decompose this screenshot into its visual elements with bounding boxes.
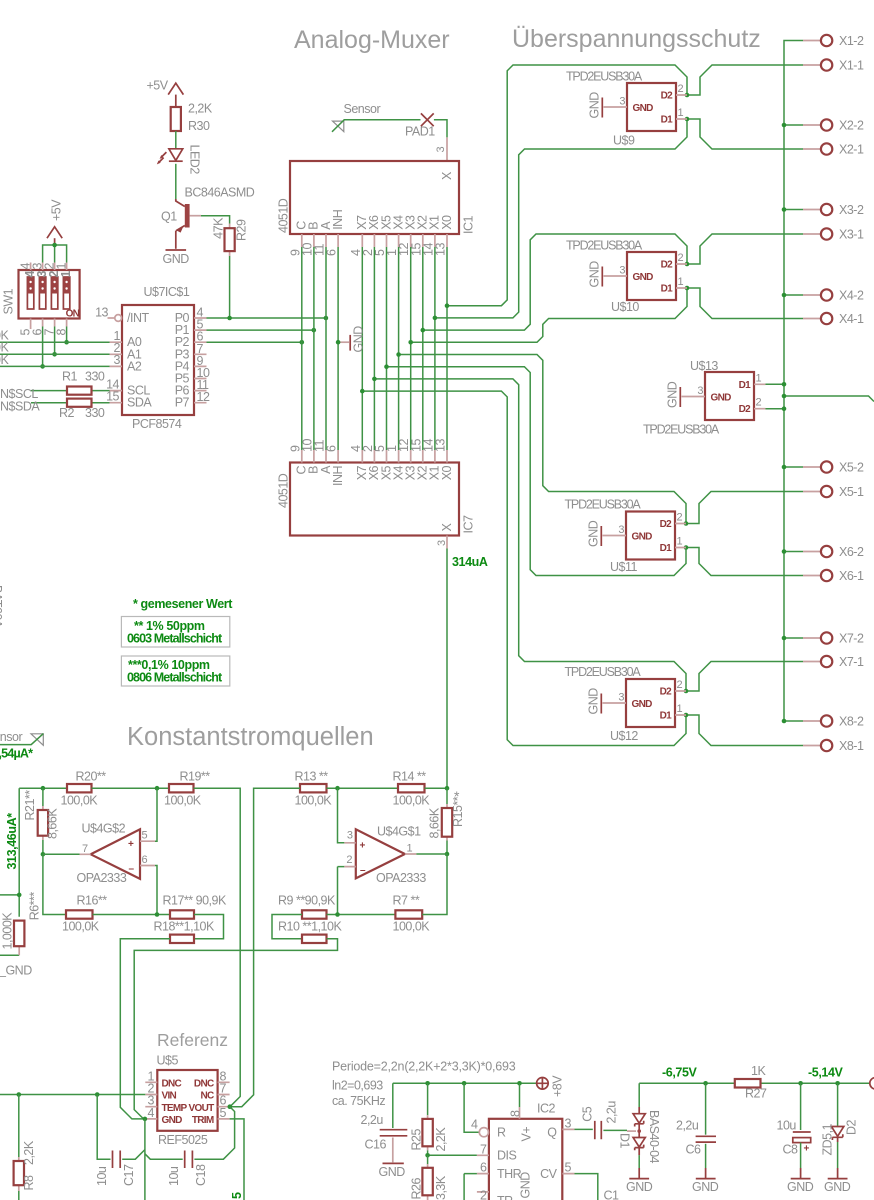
svg-text:0603 Metallschicht: 0603 Metallschicht [127,632,223,646]
svg-text:5: 5 [142,830,148,842]
junction U$11 D1 [684,545,689,550]
wire R17 right to R18 right [194,915,224,939]
svg-text:GND: GND [711,393,732,404]
svg-text:ON: ON [66,309,80,320]
capacitor C8 10u polarized [777,1083,811,1178]
svg-text:R14 **: R14 ** [393,770,427,784]
svg-text:3: 3 [114,353,121,367]
svg-text:INH: INH [331,209,345,230]
svg-text:8: 8 [509,1110,523,1117]
svg-text:R15**: R15** [451,796,465,827]
capacitor C6 2,2u [676,1083,716,1178]
svg-text:100,0K: 100,0K [393,919,431,933]
svg-text:4051D: 4051D [276,473,290,508]
protection IC U$9 TPD2EUSB30A [566,70,687,148]
node Sensor flag (lower) [0,730,43,745]
svg-text:A2: A2 [127,359,142,373]
svg-text:100,0K: 100,0K [62,919,100,933]
svg-text:U$13: U$13 [690,359,718,373]
capacitor C17 10u [95,1095,145,1187]
wire A1 row [0,353,110,355]
svg-text:R16**: R16** [77,894,108,908]
svg-text:REF5025: REF5025 [158,1133,208,1147]
svg-text:3: 3 [347,830,353,842]
junction P0/A-select [324,316,329,321]
resistor R21 8,66K [23,788,60,840]
svg-text:X: X [440,171,454,180]
svg-text:GND: GND [824,1180,851,1194]
svg-text:R29: R29 [235,219,249,241]
svg-text:3: 3 [697,385,703,397]
junction C6 top [703,1081,708,1086]
svg-text:C6: C6 [686,1143,702,1157]
wire mux pin verticals IC1-IC7 [302,247,447,450]
svg-text:X5-2: X5-2 [839,461,864,475]
junction bus mid tap [782,394,787,399]
svg-text:6: 6 [325,445,339,452]
svg-text:X8-2: X8-2 [839,715,864,729]
junction U$9 D2 [685,93,690,98]
wire opamp2 -in to R16/R17 row [155,866,157,915]
resistor R16 100,0K [62,894,107,934]
resistor R8 2,2K [14,1095,36,1200]
junction bus X7-2 [782,636,787,641]
resistor R17 90,9K [163,894,227,919]
junction +5V rail [52,243,57,248]
wire net X1-1 (mux X0 row) [447,65,803,306]
resistor R6 1,000K [1,892,42,956]
junction REF GND [143,1117,148,1122]
svg-text:2: 2 [677,512,683,524]
wire net X3-1 (mux X2 row) [423,234,803,330]
wire P2 net to mux C [207,341,302,343]
protection IC U$11 TPD2EUSB30A [565,498,687,575]
junction mux X7 [360,389,365,394]
svg-text:BAS40-04: BAS40-04 [647,1110,661,1164]
junction bus X2-2 [782,123,787,128]
wire R7 right feedback [422,854,447,915]
svg-text:X7-1: X7-1 [839,655,864,669]
junction bus X5-2 [782,465,787,470]
svg-text:CV: CV [540,1167,558,1181]
junction opamp1 +in column [335,786,340,791]
resistor R25 2,2K [410,1083,448,1151]
svg-text:100,0K: 100,0K [393,793,431,807]
svg-text:10u: 10u [777,1119,797,1133]
svg-text:X0: X0 [440,215,454,230]
junction bus X3-2 [782,207,787,212]
svg-text:R25: R25 [410,1129,424,1151]
svg-text:U$4G$2: U$4G$2 [82,822,126,836]
svg-text:NC: NC [200,1091,214,1102]
svg-text:7: 7 [82,843,88,855]
wire IC7 X output down to R13/R14 node [446,549,448,789]
svg-text:C5: C5 [580,1106,594,1122]
junction P1/B-select [312,328,317,333]
transistor Q1 BC846ASMD [161,186,255,249]
svg-text:ZD5,1: ZD5,1 [821,1123,835,1155]
svg-text:Sensor: Sensor [344,102,381,116]
svg-text:47K: 47K [212,217,226,239]
svg-text:TPD2EUSB30A: TPD2EUSB30A [565,498,642,512]
junction A2 [40,364,45,369]
svg-text:DNC: DNC [194,1079,214,1090]
svg-text:1: 1 [407,842,413,854]
wire R15 to opamp1 output [446,841,448,855]
svg-text:D1: D1 [739,380,752,391]
wire R10 right down to row 950 [134,939,337,1119]
svg-text:* gemesener Wert: * gemesener Wert [133,597,233,611]
svg-text:X4-1: X4-1 [839,312,864,326]
junction C8 top [798,1081,803,1086]
wire Q1 base to R29 [190,215,201,217]
resistor R13 100,0K [295,770,333,808]
svg-text:D1: D1 [660,711,673,722]
svg-text:0K: 0K [0,353,9,367]
svg-text:10u: 10u [95,1166,109,1186]
svg-text:8,66K: 8,66K [427,807,441,838]
svg-text:1,000K: 1,000K [1,912,15,950]
svg-text:8,66K: 8,66K [46,808,60,839]
svg-text:100,0K: 100,0K [295,793,333,807]
svg-text:2,2u: 2,2u [676,1119,699,1133]
ground GND (mux INH) [338,326,366,353]
svg-text:D2: D2 [661,260,674,271]
svg-text:Überspannungsschutz: Überspannungsschutz [512,25,761,53]
svg-text:X8-1: X8-1 [839,739,864,753]
svg-text:GND: GND [379,1165,406,1179]
junction bus X4-2 [782,293,787,298]
svg-text:D2: D2 [661,91,674,102]
svg-text:DNC: DNC [162,1079,182,1090]
svg-text:3: 3 [618,524,624,536]
svg-text:U$10: U$10 [611,300,639,314]
wire pin4 reset [464,1083,479,1132]
svg-text:C18: C18 [194,1164,208,1186]
svg-text:3: 3 [619,96,625,108]
svg-text:VOUT: VOUT [189,1103,215,1114]
junction R25 top [425,1081,430,1086]
wire net X7-1 (mux X6 row) [374,379,803,691]
svg-text:U$5: U$5 [157,1054,179,1068]
svg-text:D2: D2 [660,687,673,698]
svg-text:2,2u: 2,2u [604,1101,618,1124]
resistor R30 [171,102,213,134]
wire SW1 pins 6,7,8 down to address rows [43,327,67,367]
IC U$5 REF5025 [145,1054,229,1148]
svg-text:C17: C17 [122,1164,136,1186]
wire R20 to R19 [92,787,170,789]
svg-text:6: 6 [142,854,148,866]
wire U$13 to bus and output [766,384,874,408]
junction opamp2 output [41,852,46,857]
resistor R20 100,0K [61,770,107,808]
svg-text:U$12: U$12 [610,729,638,743]
diode D1 BAS40-04 [618,1083,662,1178]
svg-text:U$9: U$9 [613,134,635,148]
protection IC U$13 TPD2EUSB30A [643,359,766,437]
svg-text:2: 2 [346,854,352,866]
svg-text:ca. 75KHz: ca. 75KHz [332,1094,385,1108]
svg-text:6: 6 [480,1161,487,1175]
svg-text:TEMP: TEMP [162,1103,188,1114]
svg-text:5: 5 [220,1106,227,1120]
svg-text:R19**: R19** [180,770,211,784]
ground GND (D2) [824,1179,851,1194]
svg-text:D1: D1 [618,1133,632,1149]
svg-text:2: 2 [678,83,684,95]
wire REF GND column [144,1119,146,1200]
junction mux X6 [372,377,377,382]
svg-text:2,2K: 2,2K [22,1140,36,1165]
supply +5V (SW1) [47,199,63,245]
svg-text:GND: GND [633,272,654,283]
wire R9 left to R10 left [272,915,302,939]
junction mux X4 [396,352,401,357]
junction A1 [52,352,57,357]
svg-text:GND: GND [588,92,602,119]
svg-text:SW1: SW1 [1,288,15,314]
svg-text:GND: GND [163,252,190,266]
svg-text:X6-2: X6-2 [839,545,864,559]
wire R13 left down to REF VOUT [230,788,300,1106]
IC IC7 4051D [276,439,475,549]
resistor R26 3,3K [410,1155,448,1200]
svg-text:3: 3 [565,1116,572,1130]
op-amp U$4G$1 OPA2333 [344,824,426,885]
svg-text:R26: R26 [410,1178,424,1200]
junction -in/R7 [335,912,340,917]
wire opamp2 output to feedback row [43,854,80,914]
svg-text:13: 13 [95,306,108,320]
wire net X2-1 (mux X1 row) [435,119,803,318]
svg-text:13: 13 [434,439,448,452]
svg-text:X4-2: X4-2 [839,289,864,303]
svg-text:C8: C8 [783,1143,799,1157]
junction C17 column [95,1092,100,1097]
svg-text:1: 1 [678,107,684,119]
ground GND (Q1 emitter) [163,250,190,266]
protection IC U$10 TPD2EUSB30A [566,239,687,315]
svg-text:1: 1 [756,372,762,384]
junction bus X6-2 [782,549,787,554]
svg-text:C1: C1 [604,1189,620,1200]
svg-text:1: 1 [677,536,683,548]
wire return bus (X*-2 common) [784,41,803,722]
svg-text:7: 7 [480,1142,487,1156]
wire P1 net to mux B [207,329,314,331]
svg-text:10u: 10u [167,1166,181,1186]
svg-text:-6,75V: -6,75V [662,1066,697,1080]
svg-text:Q1: Q1 [161,210,177,224]
svg-text:3: 3 [435,147,447,153]
svg-text:IC7: IC7 [461,515,475,534]
supply +5V (LED branch) [147,79,184,108]
capacitor C18 10u [145,1107,235,1186]
junction pin4 column [462,1081,467,1086]
svg-text:100,0K: 100,0K [164,793,202,807]
resistor R19 100,0K [164,770,210,808]
LED LED2 [157,145,202,175]
svg-text:IC1: IC1 [461,216,475,235]
junction opamp1 output [445,852,450,857]
junction A0 [64,340,69,345]
diode D2 ZD5,1 zener [821,1083,859,1178]
wire +8V rail [393,1082,537,1084]
svg-text:R1: R1 [62,370,78,384]
svg-text:GND: GND [632,532,653,543]
wire C5 to D1 mid [603,1129,627,1131]
wire DIS row [428,1150,477,1155]
svg-text:X2-2: X2-2 [839,119,864,133]
svg-text:R17** 90,9K: R17** 90,9K [163,894,227,908]
svg-text:Periode=2,2n(2,2K+2*3,3K)*0,69: Periode=2,2n(2,2K+2*3,3K)*0,693 [332,1060,516,1074]
svg-text:15: 15 [106,390,119,404]
junction bus X8-2 [782,719,787,724]
svg-text:X3-2: X3-2 [839,203,864,217]
svg-text:+: + [360,840,366,851]
svg-text:X: X [440,523,454,532]
svg-text:3: 3 [619,265,625,277]
svg-text:1: 1 [678,276,684,288]
svg-text:2: 2 [677,679,683,691]
svg-text:+: + [804,1144,810,1155]
svg-text:X1-2: X1-2 [839,34,864,48]
svg-text:GND: GND [587,688,601,715]
svg-text:TPD2EUSB30A: TPD2EUSB30A [643,423,720,437]
svg-text:TPD2EUSB30A: TPD2EUSB30A [566,70,643,84]
wire P0 net to mux A [207,317,326,319]
svg-text:R2: R2 [59,406,75,420]
wire R21 to opamp2 output [42,840,44,854]
svg-text:X1-1: X1-1 [839,59,864,73]
junction mux X2 [421,328,426,333]
resistor R2 330 [59,399,105,420]
wire net X5-1 (mux X4 row) [399,355,803,524]
wire A2 row [0,365,110,367]
junction P0/R29 [227,316,232,321]
svg-text:GND: GND [352,326,366,353]
resistor R9 90,9K [278,894,336,919]
svg-text:C16: C16 [365,1138,387,1152]
wire net Sensor to PAD1 [332,120,447,138]
ground GND (C8) [787,1179,814,1194]
svg-text:+5V: +5V [49,199,63,221]
svg-text:D1: D1 [661,284,674,295]
junction R6 top [17,893,22,898]
op-amp U$4G$2 OPA2333 [77,822,156,886]
svg-text:3: 3 [436,540,448,546]
svg-text:R20**: R20** [76,770,107,784]
svg-text:/INT: /INT [127,311,149,325]
node Sensor flag [333,102,381,131]
svg-text:1: 1 [59,271,73,278]
svg-text:TPD2EUSB30A: TPD2EUSB30A [565,665,642,679]
svg-text:VIN: VIN [162,1091,177,1102]
svg-text:2,2K: 2,2K [434,1127,448,1152]
svg-text:2,2K: 2,2K [188,102,213,116]
junction D2 top [835,1081,840,1086]
svg-text:R8: R8 [22,1175,36,1191]
svg-text:INH: INH [331,466,345,487]
svg-text:+5V: +5V [147,79,169,93]
junction mux X1 [433,316,438,321]
svg-text:Analog-Muxer: Analog-Muxer [294,26,450,54]
wire +5V rail to SW1 pins 1-3 [43,245,67,263]
wire R29 to P0 net [229,256,231,318]
svg-text:IC2: IC2 [537,1102,556,1116]
svg-text:R21**: R21** [23,790,37,821]
capacitor C5 2,2u [580,1101,618,1140]
annotation box 2 [121,656,229,686]
junction pin8 column [517,1081,522,1086]
wire opamp1 +in [338,788,345,843]
svg-text:PCF8574: PCF8574 [132,417,182,431]
junction R14/IC7 column [445,786,450,791]
junction mux X3 [408,340,413,345]
svg-text:4: 4 [148,1106,155,1120]
wire R30 to LED2 [175,131,177,149]
svg-text:TR: TR [497,1194,513,1200]
svg-text:Q: Q [547,1125,557,1139]
wire net X8-1 (mux X7 row) [362,391,803,745]
svg-text:X6-1: X6-1 [839,569,864,583]
svg-text:GND: GND [692,1180,719,1194]
wire opamp1 -in [338,867,345,915]
junction R20 left [41,786,46,791]
resistor R29 47K [212,217,249,256]
svg-text:+: + [128,839,134,850]
ground GND (C6) [692,1179,719,1194]
capacitor C16 2,2u [361,1083,408,1162]
wire CV to C1 [575,1174,598,1200]
svg-text:U$4G$1: U$4G$1 [377,824,421,838]
connector pins X1-2 .. X8-1 [803,34,864,753]
svg-text:D2: D2 [739,404,752,415]
svg-text:2: 2 [480,1189,487,1200]
junction U$9 D1 [685,117,690,122]
svg-text:313,46uA*: 313,46uA* [5,813,19,870]
svg-text:TPD2EUSB30A: TPD2EUSB30A [566,239,643,253]
wire pin8 to rail [519,1083,521,1107]
junction U$11 D2 [684,521,689,526]
wire LED2 to Q1 collector [175,164,177,199]
svg-text:OPA2333: OPA2333 [77,871,127,885]
wire opamp2 +in [155,788,157,841]
junction U$10 D2 [685,262,690,267]
svg-text:100,0K: 100,0K [61,793,99,807]
svg-text:DIS: DIS [497,1149,517,1163]
wire N$SCL [31,390,110,392]
svg-text:U$11: U$11 [610,560,638,574]
ground GND (C16) [379,1163,406,1179]
wire R9 right to R7 [327,914,396,916]
wire opamp1 output [416,853,447,855]
svg-text:+8V: +8V [551,1075,565,1097]
svg-text:330: 330 [85,406,105,420]
wire R16 to R17 [93,914,171,916]
junction mux X0 [445,303,450,308]
svg-text:1: 1 [677,703,683,715]
wire R18 left down to REF GND [120,939,170,1119]
supply +8V [537,1075,565,1097]
junction DIS/R26 [425,1153,430,1158]
svg-text:Konstantstromquellen: Konstantstromquellen [127,723,374,751]
switch SW1 DIP [1,263,79,336]
junction -in/R17 [155,912,160,917]
junction opamp2 +in column [155,786,160,791]
svg-text:,54µA*: ,54µA* [0,747,33,761]
